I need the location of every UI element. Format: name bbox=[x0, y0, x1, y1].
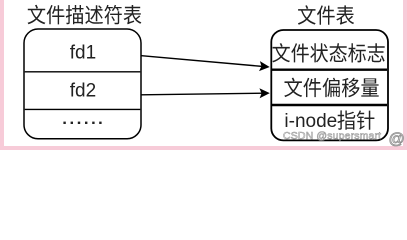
cell text 文件偏移量 bbox=[284, 78, 378, 98]
wire fd1 to file table bbox=[142, 56, 264, 67]
pink border strip right bbox=[403, 0, 407, 150]
divider under file offset row bbox=[272, 104, 387, 106]
arrowhead 1 bbox=[259, 61, 270, 71]
divider under fd1 row bbox=[25, 71, 141, 73]
label: file descriptor table title 文件描述符表 bbox=[28, 5, 142, 25]
svg-text:fd2: fd2 bbox=[70, 81, 96, 102]
table: file descriptor table box bbox=[24, 29, 141, 139]
arrowhead 2 bbox=[259, 88, 269, 98]
ellipsis dots row bbox=[63, 122, 101, 124]
label: file table title 文件表 bbox=[298, 5, 354, 25]
svg-text:@: @ bbox=[389, 131, 405, 148]
divider under fd2 row bbox=[25, 108, 141, 110]
wire fd2 to file table bbox=[142, 93, 265, 95]
cell text 文件状态标志 bbox=[272, 43, 384, 62]
cell text 指针 bbox=[338, 110, 375, 129]
svg-text:i-node: i-node bbox=[284, 111, 337, 132]
svg-text:CSDN @supersmart: CSDN @supersmart bbox=[283, 130, 381, 142]
divider under file status flags row bbox=[272, 68, 387, 70]
pink border strip left bbox=[0, 0, 4, 150]
table: file table box bbox=[271, 30, 388, 140]
pink border strip bottom bbox=[0, 146, 407, 150]
svg-text:fd1: fd1 bbox=[70, 43, 96, 64]
